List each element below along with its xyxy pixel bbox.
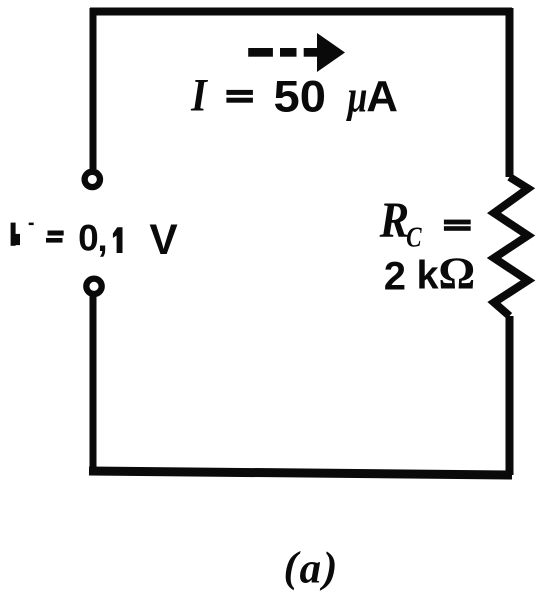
terminal bottom <box>86 279 101 294</box>
svg-text:R: R <box>379 192 410 249</box>
current arrow head <box>317 33 345 72</box>
svg-text:C: C <box>406 221 422 253</box>
equals after RC <box>444 220 471 225</box>
wire top <box>90 8 512 16</box>
svg-text:Ω: Ω <box>438 247 475 298</box>
current arrow shaft <box>304 48 321 57</box>
svg-text:50: 50 <box>274 72 326 121</box>
svg-text:): ) <box>319 544 337 592</box>
current arrow dash 2 <box>280 48 297 57</box>
svg-text:a: a <box>300 544 322 592</box>
svg-text:V: V <box>149 217 178 264</box>
terminal top <box>85 172 100 187</box>
wire right lower <box>506 316 514 475</box>
label 1 <box>113 227 123 253</box>
svg-text:A: A <box>366 72 398 121</box>
svg-text:I: I <box>190 70 209 121</box>
wire left upper <box>90 8 97 169</box>
svg-text:2: 2 <box>384 254 406 298</box>
equals after V <box>48 231 64 236</box>
damaged V glyph <box>11 223 16 246</box>
resistor RC zigzag <box>494 177 528 316</box>
svg-text:μ: μ <box>346 70 368 121</box>
current arrow dash 1 <box>248 48 273 57</box>
wire right upper <box>506 8 514 177</box>
wire left lower <box>90 296 97 471</box>
svg-text:0: 0 <box>78 217 99 258</box>
wire bottom <box>89 471 512 475</box>
svg-text:k: k <box>417 253 440 297</box>
equals after I <box>226 90 253 95</box>
svg-text:,: , <box>97 218 107 259</box>
